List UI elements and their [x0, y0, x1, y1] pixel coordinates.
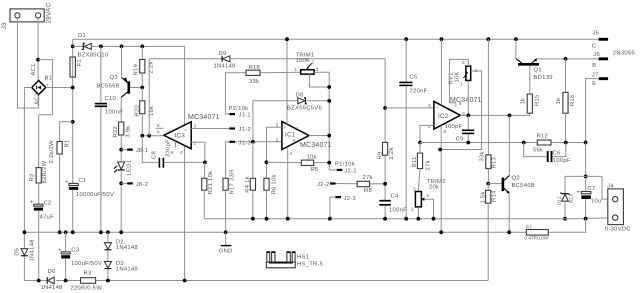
svg-text:R3: R3 — [84, 270, 93, 276]
svg-text:+: + — [30, 200, 34, 206]
svg-text:D1: D1 — [78, 33, 86, 39]
svg-text:BZX85C10: BZX85C10 — [78, 52, 109, 58]
node sense TRIM2 wiper — [432, 217, 436, 221]
svg-text:MC34071: MC34071 — [188, 114, 220, 121]
wire D1 cathode line to IC3 supply corner — [91, 45, 184, 47]
node ground rail left end / D5 — [23, 230, 27, 234]
svg-text:100pF: 100pF — [445, 124, 463, 130]
node J1-3 / R4 junction — [251, 140, 255, 144]
node sense R4 — [251, 217, 255, 221]
node output column / feedback line — [584, 141, 588, 145]
node sense J2-3 — [328, 217, 332, 221]
node Q3 emitter branch — [120, 45, 124, 49]
svg-text:10000uF/50V: 10000uF/50V — [76, 192, 114, 198]
jumper pad J8-2 — [121, 182, 148, 188]
wire IC2 output — [460, 114, 529, 116]
svg-text:R6 10k: R6 10k — [272, 174, 278, 194]
svg-text:5: 5 — [157, 123, 160, 128]
svg-text:IC2: IC2 — [438, 113, 449, 120]
svg-text:P1/10k: P1/10k — [335, 162, 355, 168]
svg-text:10u: 10u — [591, 199, 602, 205]
node IC2 non-inverting input junction — [383, 106, 387, 110]
svg-text:R20: R20 — [134, 104, 140, 116]
svg-text:J4: J4 — [607, 183, 614, 189]
svg-text:J5: J5 — [592, 31, 599, 37]
diode D8 zener BZX55C5V6 — [253, 92, 323, 111]
jumper pads J1 (P2/10k) — [229, 106, 252, 146]
wire D9 column from output — [148, 59, 150, 136]
node ground D2 — [106, 230, 110, 234]
wire LED cathode down — [120, 170, 122, 232]
svg-text:4: 4 — [180, 150, 183, 155]
svg-text:C10: C10 — [105, 96, 117, 102]
svg-text:1: 1 — [460, 81, 463, 86]
svg-text:Q1: Q1 — [534, 68, 542, 74]
svg-text:R14: R14 — [492, 190, 498, 202]
svg-text:1: 1 — [295, 67, 298, 72]
svg-text:C4: C4 — [391, 193, 400, 199]
node sense IC1 V- — [286, 217, 290, 221]
svg-text:R12: R12 — [537, 134, 549, 140]
node R1 branch — [71, 120, 75, 124]
svg-text:+: + — [436, 106, 439, 111]
node ground R17 / GND symbol — [224, 230, 228, 234]
svg-text:100pF: 100pF — [553, 158, 571, 164]
wire sense line (output minus) — [204, 218, 585, 220]
svg-text:R21 10k: R21 10k — [208, 171, 214, 195]
wire RV1 pin3 to IC2 pin5 — [449, 59, 468, 106]
wire R5 right to reference column — [314, 162, 330, 164]
svg-text:0.47R/10W: 0.47R/10W — [524, 235, 548, 240]
svg-text:E: E — [592, 81, 596, 87]
svg-text:20k: 20k — [429, 185, 439, 191]
wire C2 bottom to negative rail — [38, 211, 40, 281]
resistor R7 shunt — [524, 225, 548, 241]
wire C1 bottom to ground rail — [72, 190, 74, 233]
resistor R16 — [556, 59, 576, 143]
wire RV1 wiper to feedback line — [440, 71, 482, 150]
wire R1 bottom to ground rail — [59, 154, 61, 232]
wire R18 right to TRIM1 pin1 — [260, 71, 301, 74]
svg-text:C6: C6 — [553, 151, 562, 157]
svg-text:J2-2: J2-2 — [317, 182, 329, 188]
svg-text:27k: 27k — [426, 160, 432, 170]
svg-text:R2: R2 — [30, 173, 36, 181]
svg-text:BZX: BZX — [569, 194, 574, 203]
svg-text:J6: J6 — [593, 52, 600, 58]
svg-text:Q3: Q3 — [110, 75, 119, 81]
node sense J4 minus — [584, 217, 588, 221]
svg-text:220nF: 220nF — [410, 89, 428, 95]
connector J4 — [605, 183, 631, 232]
connector J3 — [1, 3, 53, 30]
resistor R2 — [30, 161, 49, 184]
svg-text:B: B — [592, 63, 596, 69]
node rail C5 — [404, 37, 408, 41]
wire AC1 node to R2 snubber branch — [38, 60, 52, 168]
svg-text:J3: J3 — [1, 22, 8, 29]
ground symbol GND — [219, 232, 233, 254]
wire J3 right terminal to bridge AC1 — [37, 18, 39, 81]
svg-text:33k: 33k — [249, 79, 259, 85]
svg-text:3: 3 — [428, 103, 431, 108]
svg-text:GND: GND — [219, 249, 233, 255]
svg-text:16k: 16k — [149, 106, 155, 116]
node output / RV1 / C9 — [466, 114, 470, 118]
wire IC1 output — [309, 135, 329, 137]
svg-text:2: 2 — [276, 137, 279, 142]
svg-text:2.2k/2W: 2.2k/2W — [49, 140, 55, 164]
svg-text:R9: R9 — [377, 151, 383, 159]
svg-text:J2-1: J2-1 — [344, 168, 356, 174]
svg-text:HS_TR-5: HS_TR-5 — [297, 262, 324, 268]
capacitor C1 — [65, 178, 114, 198]
svg-text:5: 5 — [459, 101, 462, 106]
svg-text:1.5k: 1.5k — [481, 191, 487, 203]
svg-text:P2/10k: P2/10k — [229, 106, 249, 112]
resistor R5 — [301, 154, 319, 173]
node R6 / R5 junction — [265, 160, 269, 164]
svg-text:1: 1 — [411, 207, 414, 212]
svg-text:+: + — [185, 127, 188, 132]
capacitor C10 — [95, 96, 123, 116]
svg-text:100nF: 100nF — [389, 208, 407, 214]
node C9 / feedback — [466, 141, 470, 145]
wire feedback line — [420, 142, 537, 144]
wire IC1 non-inverting input branch — [267, 127, 282, 178]
resistor R14 — [481, 184, 498, 204]
svg-text:1N4148: 1N4148 — [116, 266, 139, 272]
diode D9 1N4148 — [149, 51, 236, 70]
svg-text:3: 3 — [194, 124, 197, 129]
node ground Q2 emitter — [507, 230, 511, 234]
node sense C4 — [383, 217, 387, 221]
node R5 / J2-1 junction — [327, 161, 331, 165]
svg-text:Q2: Q2 — [512, 176, 520, 182]
node R16 bottom / C6 right — [564, 141, 568, 145]
resistor R9 — [377, 142, 395, 200]
svg-text:R15: R15 — [534, 94, 540, 106]
wire D9 anode line to IC2 + column — [230, 58, 385, 60]
node J8-2 branch — [119, 182, 123, 186]
svg-text:BD139: BD139 — [534, 75, 553, 81]
node rail Q1 collector — [514, 37, 518, 41]
svg-text:R18: R18 — [249, 65, 261, 71]
wire bridge plus to fuse column — [46, 87, 73, 89]
svg-text:0-30VDC: 0-30VDC — [605, 227, 631, 233]
svg-text:2.2k: 2.2k — [389, 147, 395, 159]
wire Q3 collector to R22 — [120, 97, 122, 122]
wire J1-3 to IC1 inverting input — [235, 141, 282, 143]
svg-text:MC34071: MC34071 — [300, 142, 332, 149]
wire Q1 emitter to J6 base line — [537, 58, 599, 60]
wire output line to J4 plus — [565, 176, 608, 199]
svg-text:BZX55C5V6: BZX55C5V6 — [287, 105, 322, 111]
wire IC2 V+ stub from rail — [440, 39, 442, 105]
svg-text:J7: J7 — [592, 72, 599, 78]
node bridge plus junction — [71, 86, 75, 90]
jumper pads J2 (P1/10k) — [317, 162, 357, 202]
wire IC2 inverting input to feedback line — [420, 125, 434, 142]
svg-text:R16: R16 — [570, 94, 576, 106]
wire IC3 output — [142, 135, 164, 137]
wire top +V rail — [73, 38, 599, 40]
wire D5 bottom to negative rail — [23, 256, 25, 281]
svg-text:3: 3 — [413, 186, 416, 191]
resistor R18 — [246, 65, 261, 85]
svg-text:R19: R19 — [134, 64, 140, 76]
capacitor C2 — [30, 200, 54, 221]
svg-text:56k: 56k — [533, 147, 543, 153]
node rail R13 — [487, 37, 491, 41]
wire J7 emitter to output column — [586, 79, 599, 143]
svg-text:+: + — [46, 82, 49, 87]
svg-text:+: + — [577, 190, 581, 196]
svg-text:47uF: 47uF — [40, 215, 55, 221]
trimmer TRIM1 100k — [295, 53, 330, 87]
trimmer TRIM2 20k — [411, 179, 446, 219]
svg-text:1N4148: 1N4148 — [41, 285, 64, 291]
svg-text:D6: D6 — [48, 269, 57, 275]
svg-text:+: + — [58, 247, 62, 253]
node Q2 base junction — [486, 182, 490, 186]
op-amp IC3 MC34071 (mirrored) — [156, 114, 220, 155]
node R16 top — [564, 57, 568, 61]
wire C8 branch down from node A — [142, 136, 158, 163]
svg-text:R4 1k: R4 1k — [245, 176, 251, 193]
node Q3 base junction — [140, 86, 144, 90]
capacitor C8 — [152, 139, 172, 168]
svg-text:2: 2 — [194, 141, 197, 146]
wire IC3 inverting input — [191, 142, 205, 162]
wire J4 minus to sense line — [586, 217, 608, 220]
svg-text:D8: D8 — [296, 92, 305, 98]
wire IC2 V- stub to ground rail — [440, 126, 442, 233]
svg-text:1N4148: 1N4148 — [116, 245, 139, 251]
op-amp IC1 MC34071 — [276, 122, 332, 157]
resistor R3 — [70, 270, 102, 291]
node ground C10 — [99, 230, 103, 234]
node ground C3 — [64, 230, 68, 234]
node C10 branch — [99, 45, 103, 49]
node J3 right / AC1 branch — [36, 58, 40, 62]
node ground C1 — [71, 230, 75, 234]
resistor R19 — [134, 46, 155, 87]
wire IC3 non-inverting input to J1-2 — [191, 128, 229, 130]
pot RV1 10K offset — [449, 60, 478, 86]
wire J2-2 to R8 — [336, 183, 358, 185]
resistor R22 — [113, 122, 131, 138]
fuse F1 — [70, 57, 83, 77]
node IC3 inverting summing junction — [203, 161, 207, 165]
wire R18 left branch to J1-1 — [225, 73, 246, 114]
resistor R20 — [134, 88, 155, 136]
capacitor C4 — [379, 193, 407, 218]
svg-text:+: + — [65, 179, 69, 185]
svg-text:R5: R5 — [311, 167, 320, 173]
wire J2-3 down to sense line — [330, 197, 336, 219]
resistor R4 — [245, 142, 255, 219]
svg-text:B1: B1 — [45, 75, 53, 81]
jumper pad J8-1 — [121, 148, 148, 154]
node D12 bottom — [563, 217, 567, 221]
node C7 top — [584, 175, 588, 179]
wire D9 line corner down to IC2 non-inverting node — [384, 59, 386, 143]
zener D12 — [557, 176, 574, 218]
svg-text:F1: F1 — [77, 59, 83, 66]
svg-text:100nF: 100nF — [105, 110, 123, 116]
transistor Q3 BC556B — [97, 46, 143, 97]
node ground LED — [119, 230, 123, 234]
svg-text:100uF/50V: 100uF/50V — [71, 261, 102, 267]
svg-text:6: 6 — [293, 138, 296, 143]
svg-text:J1-2: J1-2 — [239, 127, 251, 133]
node negative rail IC3 V- — [183, 279, 187, 283]
svg-text:R1: R1 — [65, 139, 71, 147]
svg-text:C1: C1 — [79, 178, 87, 184]
svg-text:R11: R11 — [412, 156, 418, 167]
wire IC3 V+ stub from D1 line — [184, 46, 186, 125]
svg-text:AC1: AC1 — [31, 63, 37, 75]
transistor Q2 BC546B — [488, 175, 535, 193]
resistor R8 — [357, 175, 373, 194]
svg-text:R7: R7 — [526, 225, 532, 230]
wire IC1 V+ stub from top rail — [286, 39, 288, 124]
node output/D9 junction B — [147, 134, 151, 138]
svg-text:HS1: HS1 — [297, 254, 309, 260]
svg-text:82R/2W: 82R/2W — [42, 161, 48, 184]
svg-text:C7: C7 — [587, 186, 595, 192]
node RV1 wiper / IC2 V- stub — [438, 148, 442, 152]
capacitor C7 — [577, 186, 602, 219]
bridge rectifier B1 — [27, 63, 52, 105]
node sense TRIM2 pin1 — [417, 217, 421, 221]
wire R2 to C2 — [38, 183, 40, 204]
node negative rail C3 — [64, 279, 68, 283]
svg-text:1N4148: 1N4148 — [214, 64, 237, 70]
node output/R20 junction A — [140, 134, 144, 138]
wire IC3 V- stub to negative rail — [184, 146, 186, 281]
resistor R12 — [533, 134, 551, 154]
wire R22 bottom to LED column — [120, 135, 122, 162]
wire TRIM1 pin3 to reference column — [314, 72, 329, 170]
svg-text:C2: C2 — [44, 201, 52, 207]
node R12 left / C6 left — [522, 141, 526, 145]
wire negative bias rail — [24, 280, 46, 282]
wire J3 left terminal to bridge AC2 — [17, 18, 38, 108]
wire RV1 pin1 to IC2 output — [467, 81, 469, 116]
wire IC1 V- stub to sense line — [287, 147, 289, 219]
resistor R17 — [223, 170, 236, 195]
svg-text:10k: 10k — [307, 154, 317, 160]
svg-text:220R/0.5W: 220R/0.5W — [70, 286, 102, 292]
svg-text:R13: R13 — [492, 156, 498, 168]
wire C8 to inverting node — [164, 161, 205, 163]
svg-text:3: 3 — [276, 122, 279, 127]
wire R13 column from rail — [487, 39, 489, 155]
heatsink HS1 — [266, 252, 323, 268]
wire D8 anode column to J1-3 node — [252, 101, 254, 142]
svg-text:6: 6 — [157, 129, 160, 134]
svg-text:D9: D9 — [219, 51, 227, 57]
node R19 branch — [140, 45, 144, 49]
node R9 / R8 / C4 junction — [383, 182, 387, 186]
wire IC2 non-inverting input — [385, 107, 434, 109]
wire ground rail — [24, 231, 526, 233]
wire Q2 collector to IC2 output — [508, 115, 510, 175]
svg-text:J1-3: J1-3 — [239, 140, 252, 146]
svg-text:3: 3 — [316, 67, 319, 72]
svg-text:J1-1: J1-1 — [239, 113, 251, 119]
node negative rail D3 — [106, 279, 110, 283]
svg-text:R17 33R: R17 33R — [230, 170, 236, 195]
svg-text:+: + — [284, 125, 287, 130]
svg-text:330pF: 330pF — [166, 139, 172, 157]
capacitor C9 — [445, 115, 475, 142]
svg-text:2N3055: 2N3055 — [613, 50, 636, 56]
node negative rail C2 — [37, 279, 41, 283]
node feedback line / R11 — [418, 141, 422, 145]
diode D1 (zener BZX85C10) — [73, 33, 109, 59]
svg-text:LED1: LED1 — [127, 160, 133, 176]
node fuse top / D1 branch — [71, 45, 75, 49]
svg-text:C8: C8 — [152, 150, 158, 159]
diode D6 1N4148 — [41, 269, 64, 291]
resistor R6 — [264, 174, 278, 218]
resistor R11 — [412, 143, 432, 192]
wire +V column down to C1 — [72, 88, 74, 184]
wire +V column through fuse up to top rail — [72, 39, 74, 87]
svg-text:2: 2 — [312, 60, 315, 65]
node J8-1 branch — [119, 148, 123, 152]
svg-text:AC2: AC2 — [34, 93, 40, 105]
resistor R21 — [202, 162, 215, 218]
node IC1 output junction — [327, 134, 331, 138]
wire Q2 emitter to ground rail — [508, 193, 510, 232]
svg-text:IC3: IC3 — [175, 133, 186, 140]
svg-text:D12: D12 — [557, 196, 562, 205]
svg-text:BC546B: BC546B — [512, 183, 535, 189]
node rail IC1 V+ — [285, 37, 289, 41]
wire R14 bottom to negative rail — [487, 203, 489, 280]
svg-text:100K: 100K — [296, 58, 311, 64]
svg-text:1N4148: 1N4148 — [30, 239, 36, 262]
wire J1-3 to R17 — [226, 142, 230, 179]
svg-text:C3: C3 — [71, 248, 80, 254]
node sense C5 — [404, 217, 408, 221]
wire output column down to C7 line — [585, 143, 587, 192]
svg-text:3.9k: 3.9k — [126, 126, 132, 138]
svg-text:C5: C5 — [410, 75, 419, 81]
svg-text:D5: D5 — [14, 247, 20, 256]
wire C10 column — [100, 46, 102, 103]
diode D3 1N4148 — [104, 250, 138, 281]
connector pads J5 J6 J7 (2N3055) — [592, 31, 636, 87]
diode D5 1N4148 — [14, 239, 35, 262]
diode D2 1N4148 — [104, 232, 138, 251]
resistor R13 — [480, 151, 498, 183]
wire R17 bottom to ground rail — [225, 190, 227, 232]
transistor Q1 BD139 — [516, 39, 553, 81]
svg-text:5: 5 — [296, 127, 299, 132]
node rail IC2 V+ — [440, 37, 444, 41]
wire IC2 output up through R15 — [529, 113, 531, 115]
svg-text:BC556B: BC556B — [97, 84, 120, 90]
wire R8 right to C4 top — [370, 183, 386, 185]
node D8 junction — [327, 99, 331, 103]
svg-text:R22: R22 — [113, 126, 119, 138]
wire R5 line — [267, 161, 302, 163]
